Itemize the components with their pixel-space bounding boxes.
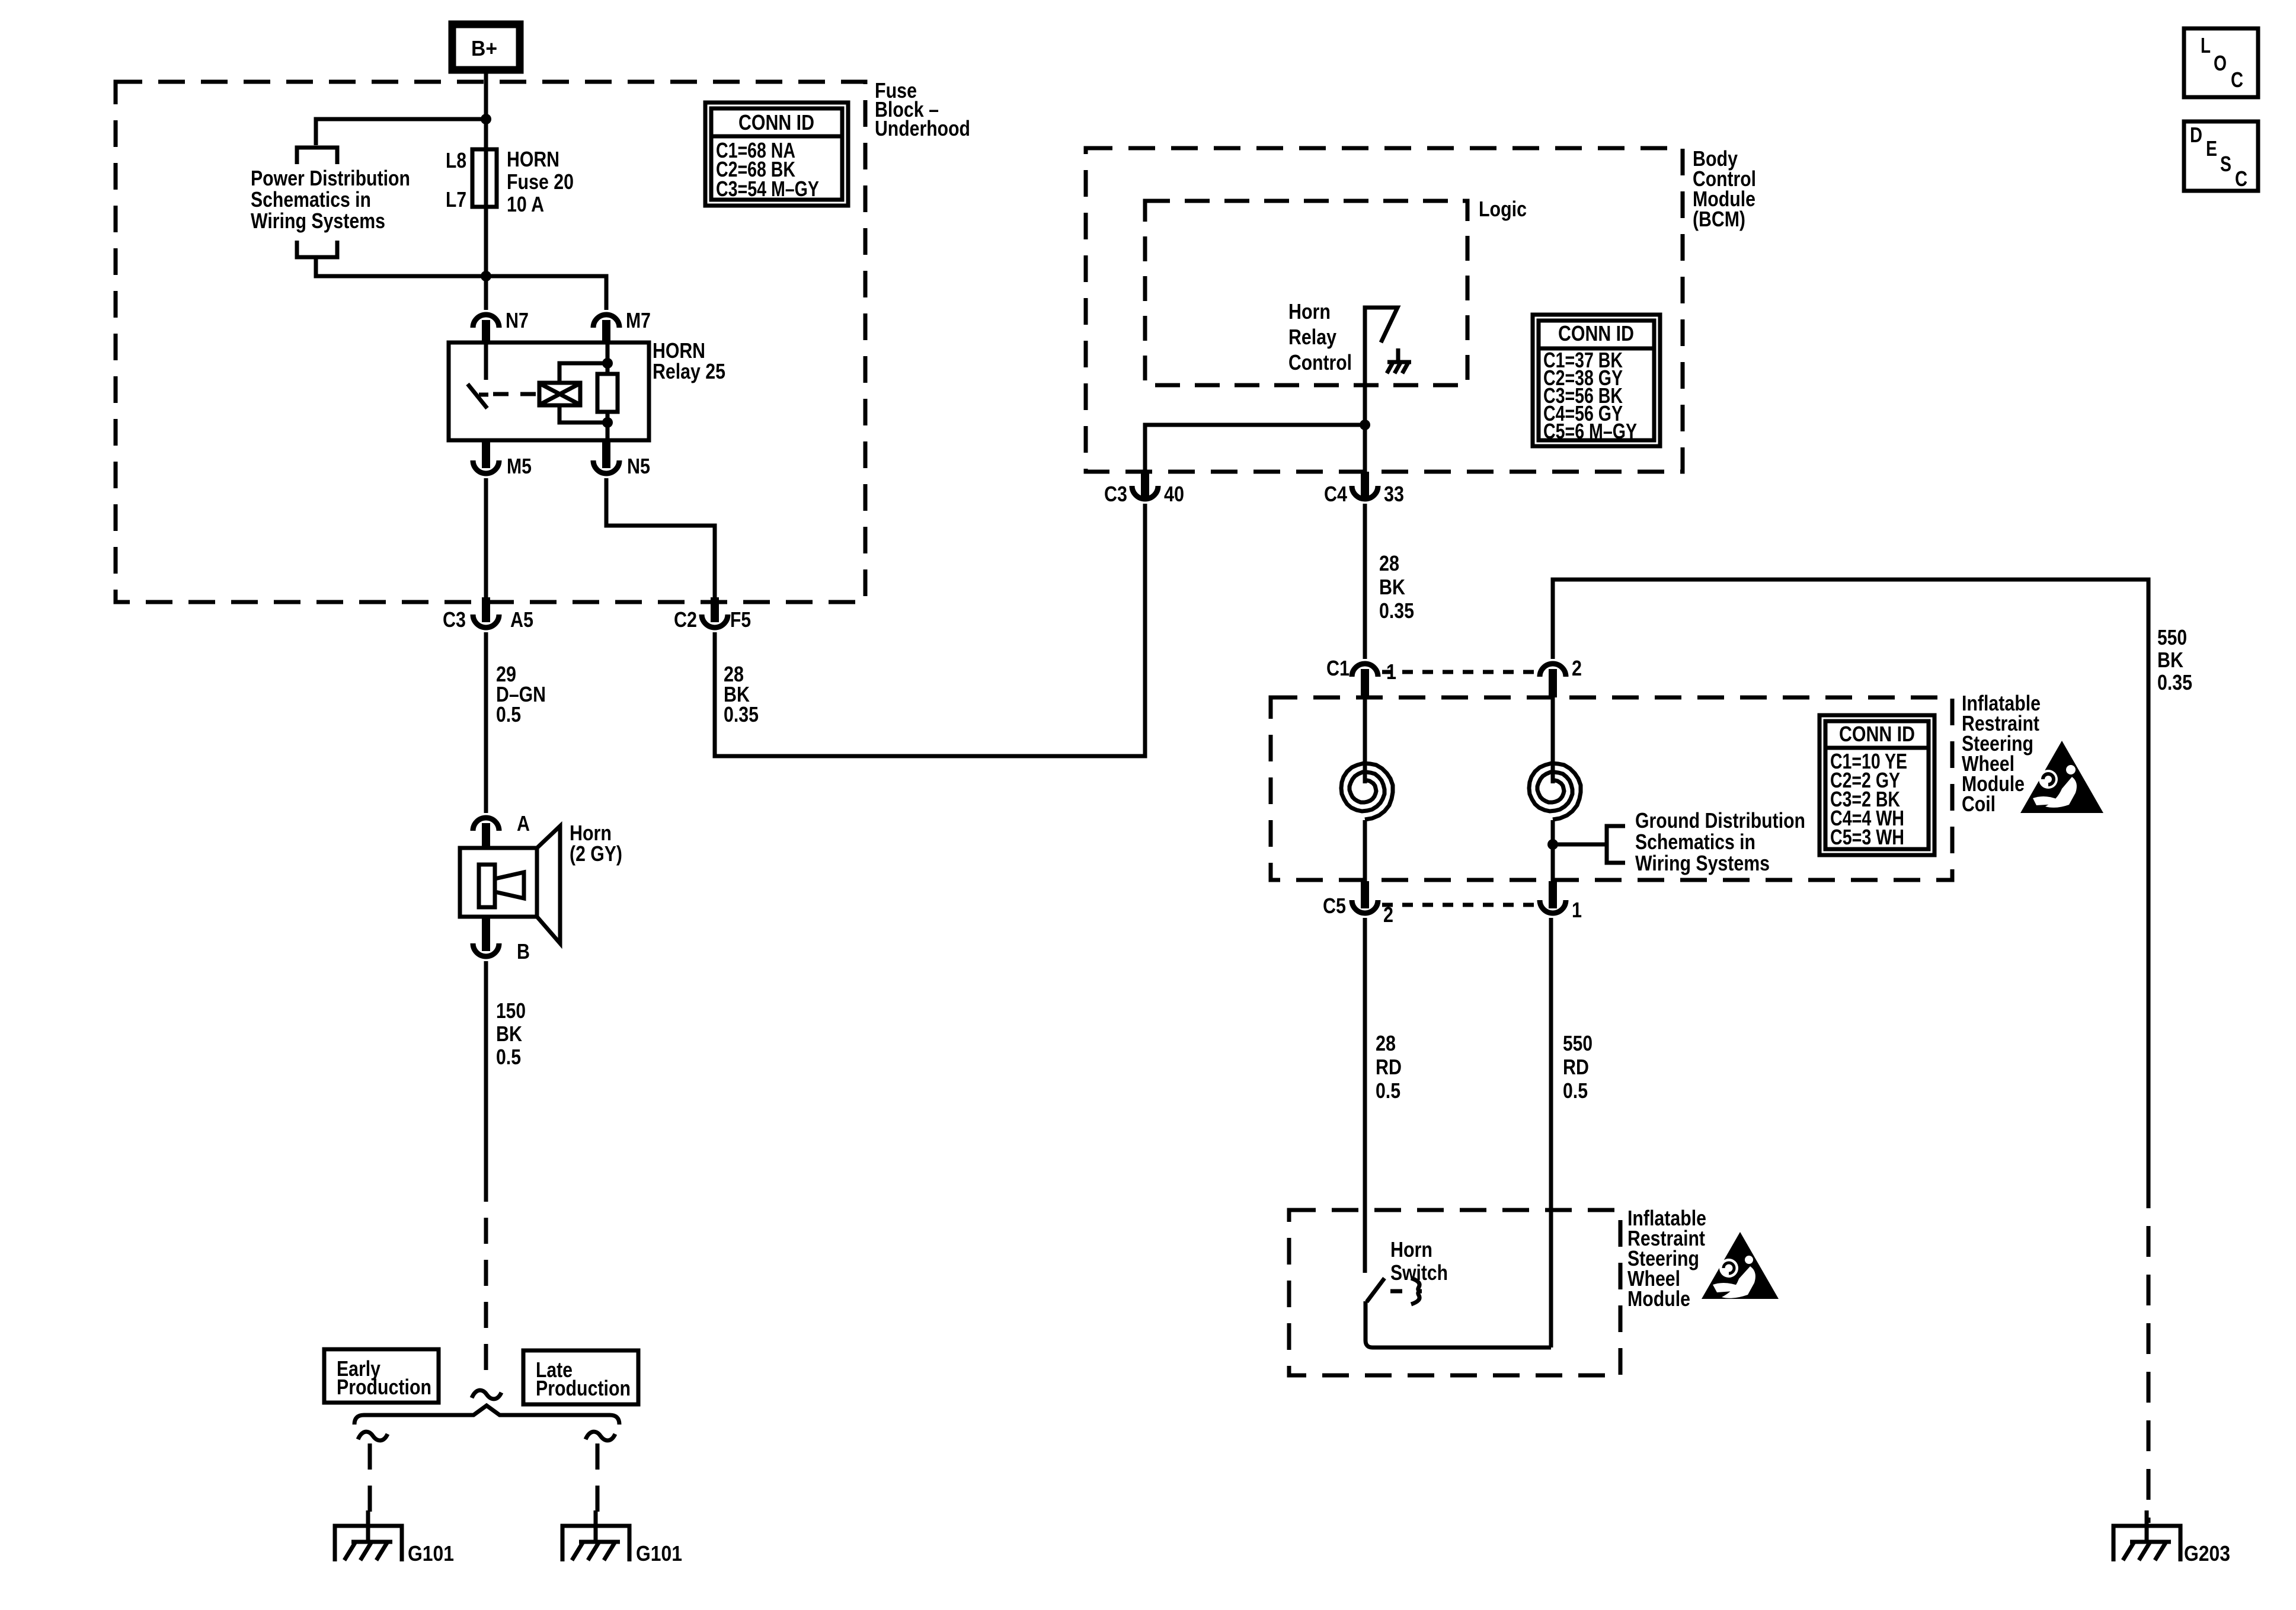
svg-text:F5: F5 (730, 607, 751, 632)
svg-text:Horn: Horn (1390, 1237, 1432, 1262)
svg-text:BK: BK (2157, 648, 2183, 672)
svg-text:28: 28 (1379, 551, 1399, 575)
table CONN ID steering wheel coil (1819, 715, 1934, 855)
svg-text:0.35: 0.35 (1379, 598, 1414, 623)
label box Late Production (523, 1350, 638, 1404)
coil clockspring left (1341, 678, 1393, 886)
svg-text:B+: B+ (471, 36, 497, 60)
svg-text:(BCM): (BCM) (1693, 207, 1745, 231)
connector 1 bottom (1540, 881, 1582, 922)
svg-text:1: 1 (1572, 898, 1582, 922)
ground G203 (2113, 1510, 2230, 1566)
wire coil 2 to G203 run (1553, 580, 2148, 1177)
svg-text:0.5: 0.5 (496, 1045, 521, 1069)
brace production split (354, 1406, 619, 1425)
horn relay control switch (1365, 308, 1398, 425)
wire label 28 RD 0.5 (1376, 1031, 1402, 1103)
fuse block underhood boundary (116, 82, 865, 602)
svg-text:Wiring Systems: Wiring Systems (251, 209, 385, 233)
svg-text:C4: C4 (1324, 482, 1347, 506)
logic block boundary (1145, 201, 1467, 385)
horn component (460, 826, 560, 943)
svg-text:150: 150 (496, 998, 526, 1023)
connector boundary line C1 row (dotted) (1382, 670, 1536, 674)
ground G101 late production (562, 1510, 682, 1566)
fuse HORN Fuse 20 10A (472, 149, 497, 207)
svg-text:Production: Production (536, 1376, 631, 1400)
node junction below fuse (481, 271, 491, 281)
reference box DESC (2184, 121, 2258, 191)
wire label 550 BK 0.35 (2157, 625, 2192, 694)
wire label 150 BK 0.5 (496, 998, 526, 1069)
svg-text:G203: G203 (2184, 1541, 2230, 1566)
svg-text:Power Distribution: Power Distribution (251, 166, 410, 190)
wire early production ground lead (dashed) (368, 1443, 372, 1519)
coil clockspring right (1529, 677, 1581, 886)
label Power Distribution Schematics in Wiring Systems (251, 166, 410, 233)
wire late production ground lead (dashed) (596, 1443, 600, 1519)
label Fuse Block Underhood (875, 78, 970, 140)
table CONN ID BCM (1533, 315, 1660, 446)
connector C3 40 (1104, 472, 1184, 506)
label Inflatable Restraint Steering Wheel Module Coil (1962, 691, 2041, 816)
svg-text:L7: L7 (446, 187, 466, 212)
wire from lower bracket to relay feed (316, 257, 486, 276)
connector C1 1 (1326, 656, 1396, 697)
svg-text:Production: Production (337, 1375, 431, 1399)
wire break symbol early branch (358, 1432, 388, 1441)
svg-text:28: 28 (1376, 1031, 1396, 1055)
svg-text:C3: C3 (1104, 482, 1127, 506)
node BCM output junction (1360, 420, 1370, 430)
logic internal ground (1387, 348, 1411, 373)
svg-text:0.35: 0.35 (2157, 670, 2192, 694)
label Inflatable Restraint Steering Wheel Module (1627, 1206, 1706, 1311)
label Horn (2 GY) (570, 821, 622, 866)
svg-text:C5: C5 (1323, 894, 1346, 918)
svg-text:550: 550 (2157, 625, 2187, 649)
label Horn Switch (1390, 1237, 1448, 1285)
svg-text:33: 33 (1384, 482, 1404, 506)
svg-text:0.5: 0.5 (1563, 1078, 1588, 1103)
svg-text:(2 GY): (2 GY) (570, 841, 622, 866)
connector A (473, 811, 530, 848)
connector N7 (473, 308, 529, 344)
wire label 28 BK 0.35 (BCM) (1379, 551, 1414, 623)
airbag warning triangle (coil) (2020, 741, 2103, 813)
svg-text:A5: A5 (510, 607, 533, 632)
svg-text:RD: RD (1376, 1055, 1402, 1079)
wire C4 33 to coil C1 (1363, 504, 1367, 659)
label box Early Production (324, 1349, 439, 1403)
wire to ground distribution reference (1553, 843, 1605, 847)
connector C2 F5 (674, 597, 751, 632)
off-page bracket lower (power distribution) (297, 241, 337, 257)
svg-text:M5: M5 (507, 454, 532, 478)
svg-text:CONN ID: CONN ID (738, 110, 814, 135)
steering wheel module coil boundary (1271, 697, 1952, 880)
svg-text:Underhood: Underhood (875, 116, 970, 140)
svg-text:Schematics in: Schematics in (1635, 830, 1755, 854)
svg-text:G101: G101 (636, 1541, 682, 1566)
svg-text:Logic: Logic (1479, 197, 1527, 221)
steering wheel module (horn switch) boundary (1289, 1210, 1620, 1375)
svg-text:C3=54 M–GY: C3=54 M–GY (716, 177, 819, 201)
node ground distribution tap (1547, 839, 1558, 850)
svg-text:C5=6 M–GY: C5=6 M–GY (1543, 419, 1637, 443)
svg-text:E: E (2206, 136, 2217, 161)
node relay bottom junction (602, 417, 613, 428)
wire break symbol (472, 1390, 501, 1399)
label Ground Distribution Schematics in Wiring Systems (1635, 808, 1805, 875)
svg-text:Control: Control (1288, 350, 1352, 375)
relay actuation linkage (493, 392, 538, 396)
svg-text:S: S (2220, 152, 2231, 176)
svg-text:L8: L8 (446, 148, 466, 172)
svg-text:C5=3 WH: C5=3 WH (1830, 825, 1904, 849)
wire C2 F5 to BCM C3 40 (715, 504, 1145, 756)
connector N5 (593, 440, 650, 478)
svg-text:B: B (517, 939, 530, 964)
label HORN Relay 25 (653, 338, 725, 383)
svg-text:A: A (517, 811, 530, 836)
off-page bracket (ground distribution) (1607, 826, 1625, 863)
svg-text:RD: RD (1563, 1055, 1589, 1079)
svg-text:C3: C3 (443, 607, 466, 632)
svg-text:BK: BK (496, 1022, 522, 1046)
relay HORN Relay 25 (449, 343, 649, 440)
svg-text:G101: G101 (408, 1541, 454, 1566)
label Body Control Module (BCM) (1693, 146, 1756, 231)
svg-text:Coil: Coil (1962, 792, 1996, 816)
svg-text:0.5: 0.5 (1376, 1078, 1400, 1103)
svg-text:550: 550 (1563, 1031, 1593, 1055)
ground G101 early production (335, 1510, 454, 1566)
table CONN ID fuse block underhood (705, 103, 848, 206)
wire coil 1 to horn switch return (1549, 918, 1553, 1347)
svg-text:40: 40 (1164, 482, 1184, 506)
wire relay coil bottom (559, 405, 607, 422)
svg-text:L: L (2201, 33, 2211, 57)
svg-text:C1: C1 (1326, 656, 1350, 680)
svg-text:N5: N5 (627, 454, 650, 478)
connector M7 (593, 308, 651, 344)
connector C4 33 (1324, 472, 1404, 506)
power B+ symbol (452, 24, 520, 70)
connector C5 2 (1323, 881, 1393, 927)
svg-text:Relay 25: Relay 25 (653, 359, 725, 383)
svg-text:10 A: 10 A (507, 192, 544, 216)
wire G203 lead (dashed) (2147, 1177, 2151, 1523)
off-page bracket upper (power distribution) (297, 148, 337, 164)
wire B+ to fuse (484, 70, 488, 152)
wire BCM internal to C3 40 (1145, 425, 1365, 474)
svg-text:C: C (2231, 68, 2243, 92)
svg-text:C2: C2 (674, 607, 697, 632)
wire label 550 RD 0.5 (1563, 1031, 1593, 1103)
wire M5 to connector C3 A5 (484, 478, 488, 600)
svg-text:Fuse 20: Fuse 20 (507, 169, 574, 194)
wire ground lead continuation (dashed) (484, 1176, 488, 1380)
switch horn switch (1366, 1278, 1551, 1347)
wire relay coil top (559, 363, 607, 383)
svg-text:CONN ID: CONN ID (1558, 321, 1634, 345)
svg-text:Relay: Relay (1288, 325, 1336, 349)
wire coil C5 to horn switch (1363, 918, 1367, 1273)
wire N5 to connector C2 F5 (606, 478, 715, 600)
connector 2 top (1540, 656, 1582, 697)
svg-text:D: D (2190, 123, 2202, 147)
svg-text:0.35: 0.35 (724, 702, 759, 726)
wire horn relay control output (1363, 425, 1367, 474)
svg-text:O: O (2214, 51, 2227, 75)
svg-text:BK: BK (1379, 575, 1405, 599)
wire break symbol late branch (586, 1432, 615, 1441)
svg-text:Horn: Horn (1288, 299, 1331, 324)
node junction at fuse feed (481, 114, 491, 124)
connector C3 A5 (443, 597, 533, 632)
node relay top junction (602, 358, 613, 369)
svg-text:0.5: 0.5 (496, 702, 521, 726)
wire fuse to relay (484, 207, 488, 310)
connector B (473, 917, 530, 964)
connector M5 (473, 440, 532, 478)
wire branch to power distribution reference (316, 119, 486, 145)
connector boundary line C5 row (dotted) (1382, 903, 1536, 907)
reference box LOC (2184, 28, 2258, 97)
relay coil element (539, 383, 580, 405)
wire label 28 BK 0.35 (underhood) (724, 662, 759, 726)
wire label 29 D-GN 0.5 (496, 662, 546, 726)
value label HORN Fuse 20 10 A (507, 147, 574, 216)
svg-text:HORN: HORN (507, 147, 559, 171)
label Horn Relay Control (1288, 299, 1352, 375)
wire C3 A5 to horn A (484, 632, 488, 813)
wire horn B ground lead (484, 961, 488, 1176)
svg-text:M7: M7 (626, 308, 651, 332)
svg-text:Wiring Systems: Wiring Systems (1635, 851, 1770, 875)
airbag warning triangle (module) (1702, 1232, 1779, 1299)
svg-text:Module: Module (1627, 1286, 1690, 1311)
svg-text:C: C (2235, 167, 2247, 191)
wire branch to relay coil side (486, 276, 606, 310)
svg-text:Schematics in: Schematics in (251, 187, 371, 212)
svg-text:Ground Distribution: Ground Distribution (1635, 808, 1805, 833)
resistor relay suppression (597, 343, 618, 440)
svg-text:CONN ID: CONN ID (1839, 722, 1915, 746)
svg-text:N7: N7 (506, 308, 529, 332)
body control module boundary (1086, 148, 1683, 472)
relay switch contact (468, 343, 488, 408)
svg-text:2: 2 (1572, 656, 1582, 680)
